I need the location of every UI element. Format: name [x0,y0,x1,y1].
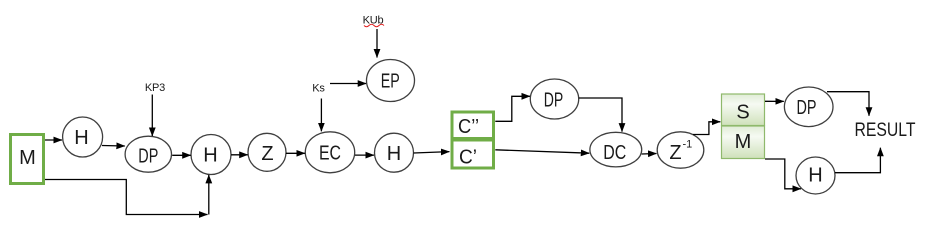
wire Ks to EC [320,99,322,132]
svg-text:S: S [736,102,749,124]
svg-text:C’: C’ [459,147,477,169]
wire Ks to EP [330,83,366,85]
wire M feedback elbow [45,180,208,215]
node H1 [63,117,103,157]
wire M2 to H4 elbow [765,159,801,189]
node H2 [191,135,231,175]
wire M to H1 [45,139,62,141]
wire H2 to Z [231,154,248,156]
svg-text:KP3: KP3 [145,82,165,94]
node EC [305,132,354,173]
svg-text:M: M [19,147,36,169]
node DP1 [125,136,171,172]
svg-text:DP: DP [797,97,817,119]
wire H3 to C' [414,152,450,153]
svg-text:EP: EP [381,71,400,93]
node DC [590,132,642,167]
svg-text:DC: DC [603,142,626,164]
wire H1 to DP1 [102,145,125,148]
wire H4 to RESULT elbow [835,148,880,173]
block M (message input) [11,135,44,184]
block C' [452,140,494,169]
node Z-1 [657,132,704,168]
svg-text:-1: -1 [683,139,693,151]
svg-text:RESULT: RESULT [855,120,916,141]
block M2 [722,126,765,159]
svg-text:H: H [808,165,822,187]
node EP [367,60,415,102]
wire Z to EC [286,152,305,154]
block S [722,94,765,126]
wire KP3 to DP1 [151,95,153,137]
block C'' [452,112,494,139]
node DP2 [530,79,578,119]
svg-text:Z: Z [669,142,681,164]
wire DC to Z-1 [642,153,657,156]
svg-text:M: M [735,131,752,153]
svg-text:Ks: Ks [312,83,325,95]
wire C' to DC [495,150,589,153]
node Z [248,133,286,171]
wire EC to H3 [355,154,374,156]
wire DP1 to H2 [172,154,191,156]
svg-text:H: H [387,143,401,165]
wire DP2 to DC elbow [579,98,622,132]
svg-text:Z: Z [261,143,273,165]
svg-text:H: H [74,127,88,149]
svg-text:H: H [203,145,217,167]
wire C'' to DP2 elbow [495,96,530,121]
wire S to DP3 [765,100,784,102]
node H3 [375,133,414,172]
svg-text:EC: EC [319,143,341,165]
wire KUb to EP [376,29,378,58]
svg-text:C’’: C’’ [458,116,479,138]
wire DP3 to RESULT elbow [827,92,869,116]
svg-text:DP: DP [138,145,158,167]
svg-text:DP: DP [544,90,564,112]
spellcheck squiggle under KUb [364,24,384,27]
wire Z-1 to S elbow [693,122,720,135]
node DP3 [784,87,833,127]
node H4 [796,157,835,194]
wire feedback up into H2 [208,175,210,215]
